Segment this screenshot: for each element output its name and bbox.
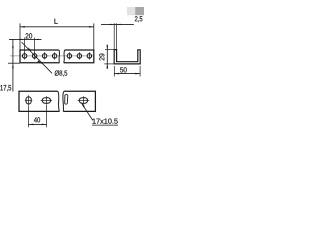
strip1 left piece outline [20, 50, 59, 63]
strip2 right break curve [62, 91, 65, 111]
strip2 left break curve [58, 91, 60, 111]
slot f1 vertical [26, 97, 31, 104]
2,5 text [135, 16, 142, 22]
strip2 right piece outline [63, 91, 95, 111]
slot f2 [42, 98, 50, 103]
20 dim line [9, 38, 42, 40]
centerline strip1 [10, 55, 94, 57]
strip1 left break curve [58, 50, 61, 63]
17,5 text [0, 85, 11, 91]
40 text [34, 117, 40, 122]
hole 6 [77, 54, 81, 58]
L text [54, 19, 57, 24]
50 dim [113, 66, 115, 77]
40 dim [28, 106, 30, 127]
logo block dark [135, 7, 144, 15]
partial slot at break [65, 95, 68, 105]
slot f3 [79, 98, 87, 103]
strip1 right piece outline [64, 50, 94, 63]
hole 4 [52, 54, 56, 58]
dia text [55, 70, 68, 76]
hole 7 [87, 54, 91, 58]
17,5 dim [12, 39, 14, 91]
hole 2 [32, 54, 36, 58]
17x10.5 leader [81, 103, 93, 121]
2,5 extension lines [113, 23, 115, 49]
hole 5 [67, 54, 71, 58]
17x10.5 text [93, 119, 118, 124]
hole 1 [22, 54, 26, 58]
29 dim [106, 45, 108, 69]
logo block light [127, 7, 135, 15]
L dim line [20, 26, 94, 28]
L dim extension right [93, 23, 95, 49]
strip2 left piece outline [19, 91, 59, 111]
29 text rotated [99, 54, 104, 61]
hole 3 [42, 54, 46, 58]
20 text [26, 33, 33, 38]
50 text [120, 67, 127, 72]
L dim extension left [19, 23, 21, 49]
strip1 right break curve [63, 50, 66, 63]
dia 8,5 leader [22, 42, 53, 73]
2,5 dim line [101, 23, 134, 25]
section outline [114, 50, 140, 64]
